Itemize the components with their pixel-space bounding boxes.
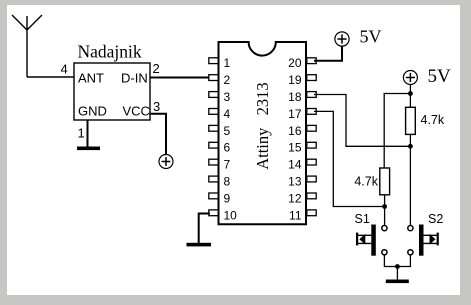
- wire D-IN to IC pin 2: [150, 77, 211, 79]
- svg-text:VCC: VCC: [123, 104, 150, 119]
- ground (IC pin 10): [187, 243, 212, 247]
- svg-text:20: 20: [288, 56, 302, 70]
- svg-text:18: 18: [288, 90, 302, 104]
- svg-text:2: 2: [153, 61, 160, 76]
- wire pin 20 to +5V: [314, 46, 342, 61]
- antenna: [12, 15, 42, 77]
- pin 5: [209, 125, 218, 131]
- pin 4: [209, 109, 218, 115]
- branch wire node to R2 top: [384, 94, 410, 169]
- pin 11: [307, 210, 316, 216]
- svg-text:S1: S1: [355, 212, 370, 226]
- wire common to ground: [396, 267, 398, 280]
- junction node below R2: [382, 204, 387, 209]
- resistor R1 4.7k: [406, 107, 416, 134]
- pin 10: [209, 210, 218, 216]
- junction node common: [395, 264, 400, 269]
- ground (switches): [386, 280, 409, 284]
- svg-text:2: 2: [224, 73, 231, 87]
- wire R1 bottom to S2: [409, 134, 411, 225]
- pin 8: [209, 176, 218, 182]
- IC U1 Attiny 2313 body: [219, 42, 307, 224]
- pin 7: [209, 159, 218, 165]
- wire R2 bottom to S1: [384, 195, 386, 226]
- svg-text:6: 6: [224, 141, 231, 155]
- pin 19: [307, 75, 316, 81]
- junction node below R1: [408, 144, 413, 149]
- switch S1: [356, 225, 387, 256]
- svg-text:14: 14: [288, 158, 302, 172]
- wire S1 bottom to common: [384, 255, 410, 267]
- svg-text:1: 1: [78, 126, 85, 141]
- svg-text:1: 1: [224, 56, 231, 70]
- pin 15: [307, 142, 316, 148]
- svg-text:10: 10: [224, 208, 238, 222]
- svg-text:5V: 5V: [360, 27, 382, 47]
- svg-text:16: 16: [288, 124, 302, 138]
- supply +5V symbol (transmitter VCC): [159, 155, 173, 169]
- svg-text:12: 12: [288, 191, 302, 205]
- pin 16: [307, 125, 316, 131]
- svg-text:15: 15: [288, 141, 302, 155]
- svg-text:GND: GND: [78, 104, 107, 119]
- svg-text:11: 11: [289, 208, 302, 222]
- resistor R2 4.7k: [380, 168, 390, 195]
- wire antenna to ANT pin 4: [27, 76, 74, 78]
- wire pin 18 to node below R1: [314, 95, 410, 147]
- pin 13: [307, 176, 316, 182]
- svg-text:2313: 2313: [253, 82, 272, 115]
- svg-text:9: 9: [224, 191, 231, 205]
- switch S2: [408, 225, 439, 256]
- pin 6: [209, 142, 218, 148]
- pin 9: [209, 193, 218, 199]
- svg-text:5V: 5V: [428, 66, 452, 87]
- pin 20: [307, 58, 316, 64]
- svg-text:7: 7: [224, 158, 231, 172]
- wire GND pin 1 down: [87, 120, 89, 147]
- pin 1: [209, 58, 218, 64]
- svg-text:S2: S2: [428, 212, 443, 226]
- svg-text:4.7k: 4.7k: [354, 175, 378, 189]
- pin 14: [307, 159, 316, 165]
- wire pin 17 to node below R2: [314, 111, 385, 206]
- svg-text:4: 4: [224, 107, 231, 121]
- svg-text:4.7k: 4.7k: [421, 113, 445, 127]
- junction node at R1 top: [408, 91, 413, 96]
- svg-text:5: 5: [224, 124, 231, 138]
- svg-text:17: 17: [288, 107, 302, 121]
- svg-text:8: 8: [224, 175, 231, 189]
- IC label Attiny 2313: [253, 82, 272, 169]
- svg-text:Attiny: Attiny: [253, 127, 272, 170]
- supply +5V symbol (IC): [335, 32, 349, 46]
- wire VCC pin 3 to supply: [150, 114, 166, 155]
- svg-text:3: 3: [224, 90, 231, 104]
- wire pin 10 to ground: [199, 214, 210, 244]
- svg-text:19: 19: [288, 73, 302, 87]
- pin 17: [307, 109, 316, 115]
- wire +5V to R1 top: [409, 84, 411, 107]
- pin 3: [209, 92, 218, 98]
- pin 2: [209, 75, 218, 81]
- supply +5V symbol (pull-ups): [403, 71, 417, 85]
- ground (transmitter): [77, 147, 100, 151]
- svg-text:4: 4: [61, 62, 68, 77]
- pin 18: [307, 92, 316, 98]
- svg-text:Nadajnik: Nadajnik: [78, 42, 142, 62]
- pin 12: [307, 193, 316, 199]
- transmitter module box (Nadajnik): [74, 63, 150, 120]
- svg-text:ANT: ANT: [78, 71, 104, 86]
- svg-text:3: 3: [153, 99, 160, 114]
- svg-text:D-IN: D-IN: [121, 71, 148, 86]
- svg-text:13: 13: [288, 175, 302, 189]
